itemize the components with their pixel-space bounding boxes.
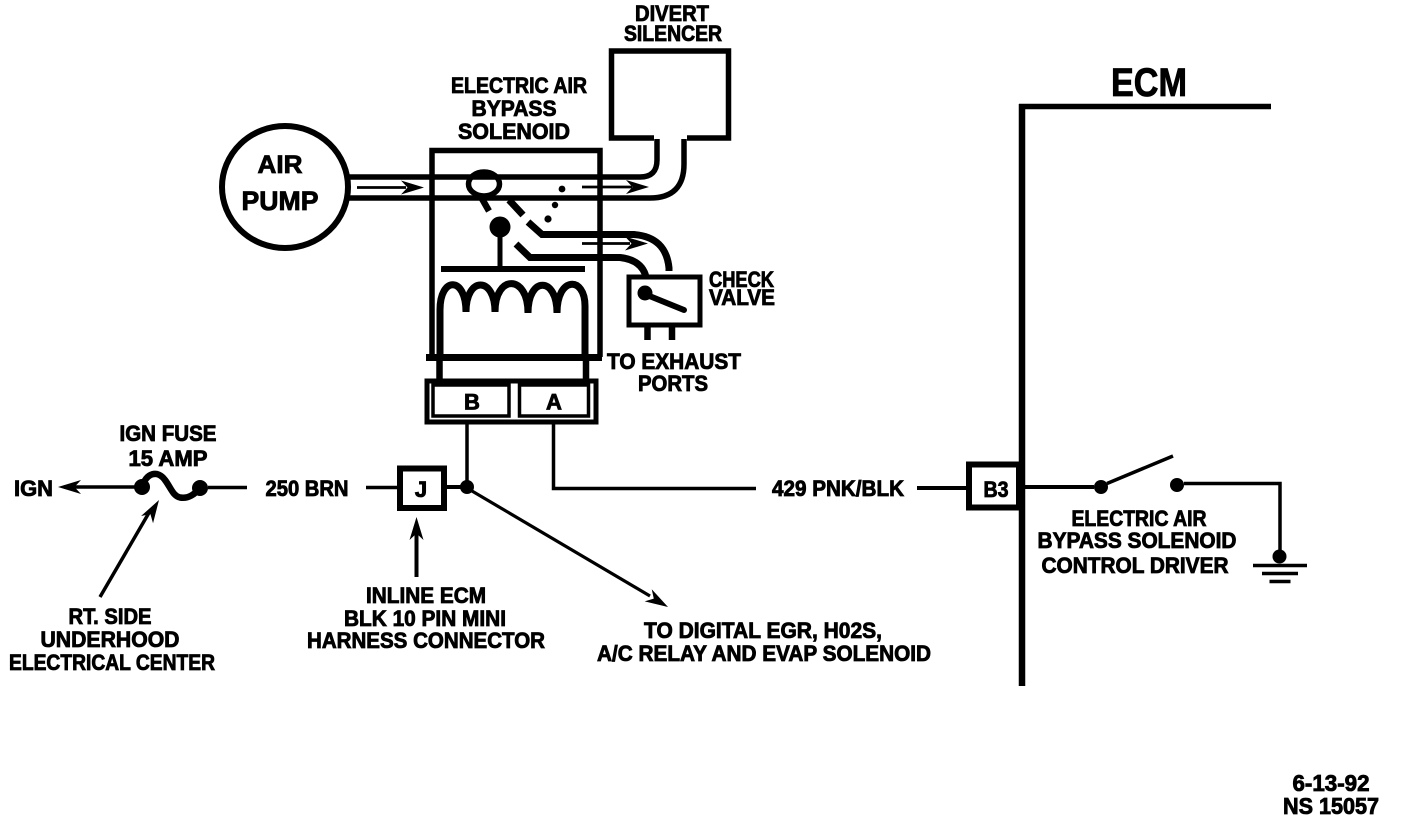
svg-text:CONTROL DRIVER: CONTROL DRIVER: [1042, 553, 1229, 578]
svg-text:A/C RELAY AND EVAP SOLENOID: A/C RELAY AND EVAP SOLENOID: [597, 641, 931, 666]
svg-text:INLINE ECM: INLINE ECM: [366, 583, 486, 608]
svg-text:429 PNK/BLK: 429 PNK/BLK: [772, 476, 904, 501]
svg-text:B: B: [464, 390, 480, 415]
check valve legs: [648, 327, 673, 340]
switch contact dot right: [1170, 478, 1184, 492]
svg-text:B3: B3: [984, 477, 1009, 502]
wire B3 into ECM: [1023, 485, 1094, 489]
switch arm (control driver): [1107, 456, 1173, 484]
check valve box: [629, 277, 700, 325]
flow arrow 2: [582, 180, 649, 194]
label TO DIGITAL EGR, H02S, A/C RELAY AND EVAP SOLENOID: [597, 618, 931, 666]
pin A cell: [520, 385, 589, 416]
wire from pin A down and right: [554, 424, 757, 489]
arrow to IGN: [58, 480, 136, 494]
connector shell: [427, 381, 596, 422]
ground dot: [1273, 550, 1287, 564]
wire 429 PNK/BLK to B3: [917, 486, 966, 490]
svg-text:SILENCER: SILENCER: [624, 21, 722, 46]
ECM boundary vertical line: [1019, 104, 1026, 686]
ground symbol: [1253, 566, 1307, 582]
solenoid coil: [440, 284, 585, 354]
svg-text:HARNESS CONNECTOR: HARNESS CONNECTOR: [307, 628, 545, 653]
svg-text:SOLENOID: SOLENOID: [458, 119, 570, 144]
connector J box: [400, 469, 444, 509]
valve pivot dot: [490, 217, 511, 238]
wire J to junction: [447, 485, 461, 489]
air channel pipe bottom wall: [349, 139, 684, 198]
svg-text:15 AMP: 15 AMP: [129, 446, 208, 471]
label TO EXHAUST PORTS: [607, 349, 742, 396]
valve stem lower: [498, 234, 503, 268]
solenoid base legs to connector: [440, 357, 587, 382]
svg-text:ELECTRIC AIR: ELECTRIC AIR: [451, 73, 587, 98]
check valve pipe lower wall: [516, 244, 646, 277]
label ELECTRIC AIR BYPASS SOLENOID CONTROL DRIVER: [1038, 506, 1237, 578]
svg-text:PUMP: PUMP: [242, 186, 319, 216]
arrow pointing up-right at fuse: [100, 496, 165, 597]
wire 250 BRN to connector J: [366, 486, 398, 490]
junction dot: [460, 480, 474, 494]
svg-text:J: J: [415, 477, 427, 502]
svg-text:A: A: [546, 390, 562, 415]
svg-text:IGN: IGN: [14, 476, 53, 501]
svg-text:BYPASS: BYPASS: [472, 96, 557, 121]
flow arrow 3: [582, 237, 648, 251]
dashed valve position dots: [544, 186, 565, 223]
valve stem upper stub: [481, 197, 489, 211]
label ELECTRIC AIR BYPASS SOLENOID: [451, 73, 587, 144]
svg-text:TO DIGITAL EGR, H02S,: TO DIGITAL EGR, H02S,: [644, 618, 882, 643]
plunger bar: [441, 266, 585, 272]
solenoid box (electric air bypass solenoid): [426, 151, 602, 358]
label CHECK VALVE: [709, 267, 775, 310]
svg-text:NS 15057: NS 15057: [1283, 793, 1379, 819]
label RT. SIDE UNDERHOOD ELECTRICAL CENTER: [9, 604, 215, 675]
fuse IGN FUSE 15 AMP: [134, 474, 208, 498]
check valve pipe upper wall: [528, 222, 669, 271]
svg-text:IGN FUSE: IGN FUSE: [120, 421, 217, 446]
svg-text:250 BRN: 250 BRN: [266, 476, 349, 501]
switch contact dot left: [1094, 480, 1108, 494]
wire from pin B down: [465, 424, 469, 482]
svg-text:PORTS: PORTS: [638, 371, 708, 396]
solenoid valve disc: [469, 172, 500, 196]
wire switch to ground: [1184, 484, 1280, 551]
air pump AIR PUMP: [222, 126, 348, 248]
svg-text:AIR: AIR: [258, 151, 303, 179]
svg-text:RT. SIDE: RT. SIDE: [69, 604, 152, 629]
svg-text:ECM: ECM: [1111, 61, 1187, 105]
divert silencer box: [612, 51, 729, 138]
check valve flap: [647, 295, 684, 310]
ECM boundary top line: [1019, 104, 1271, 110]
label INLINE ECM BLK 10 PIN MINI HARNESS CONNECTOR: [307, 583, 545, 653]
arrow from junction to TO DIGITAL EGR label: [472, 491, 672, 613]
svg-text:BYPASS SOLENOID: BYPASS SOLENOID: [1038, 528, 1237, 553]
pin B cell: [433, 385, 509, 416]
svg-text:VALVE: VALVE: [709, 285, 775, 310]
arrow pointing up at connector J: [410, 517, 424, 577]
wire fuse to 250 BRN: [208, 486, 247, 490]
check valve pivot dot: [638, 286, 653, 301]
air channel pipe top wall (pump to divert silencer): [349, 139, 657, 177]
pin B3 box: [969, 465, 1019, 508]
svg-text:ELECTRICAL CENTER: ELECTRICAL CENTER: [9, 650, 215, 675]
svg-text:UNDERHOOD: UNDERHOOD: [41, 627, 180, 652]
label IGN FUSE 15 AMP: [120, 421, 217, 471]
valve arm segment: [509, 200, 523, 215]
flow arrow 1: [357, 181, 424, 195]
label DIVERT SILENCER: [624, 1, 722, 46]
